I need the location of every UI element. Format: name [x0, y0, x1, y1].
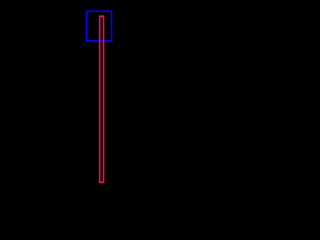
resistor R1 body (red rectangle)	[100, 16, 104, 182]
pin/selection box (blue)	[87, 11, 112, 41]
